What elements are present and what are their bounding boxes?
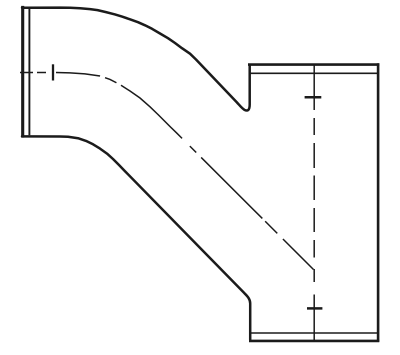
branch centerline (dash-dot along sweep) — [20, 73, 314, 270]
main pipe top hub outer face line — [248, 63, 379, 66]
left socket inner depth line — [28, 9, 30, 135]
main pipe vertical centerline (dashed) — [313, 65, 315, 342]
branch centerline tick mark — [52, 64, 54, 80]
main pipe centerline upper tick mark — [305, 96, 322, 99]
left socket outer face line — [21, 6, 24, 138]
pipe fitting upper outline (branch sweep top edge into main pipe notch) — [22, 8, 250, 111]
main pipe right wall — [377, 63, 380, 342]
main pipe centerline lower tick mark — [307, 307, 322, 310]
pipe fitting lower outline (branch sweep bottom edge into main pipe wall) — [22, 136, 250, 339]
main pipe top hub inner depth line — [250, 72, 377, 74]
main pipe bottom hub outer face line — [249, 340, 379, 343]
main pipe bottom hub inner depth line — [250, 332, 377, 334]
